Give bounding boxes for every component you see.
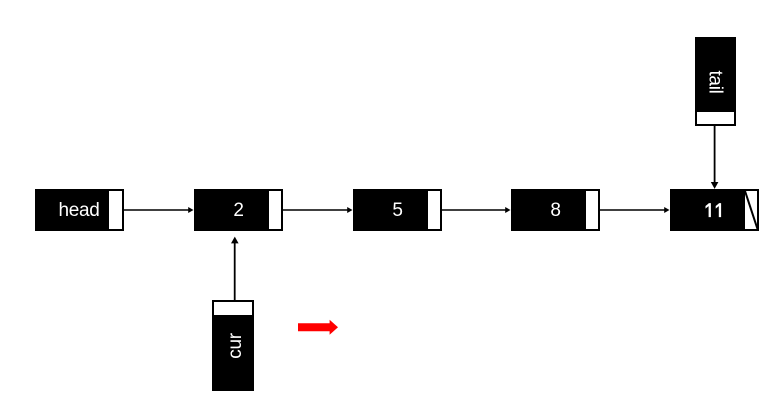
node 2 xyxy=(194,189,283,231)
wire node 5 to node 8 xyxy=(442,207,511,213)
label "tail" xyxy=(697,39,734,124)
pointer slot of node 8 xyxy=(586,191,599,229)
tail pointer box xyxy=(695,37,736,126)
wire cur up to node 2 xyxy=(231,237,239,301)
node head xyxy=(35,189,124,231)
wire tail down to node 11 xyxy=(711,125,719,189)
value label "5" xyxy=(355,192,440,230)
label "head" xyxy=(37,192,122,230)
value label "11" xyxy=(672,191,757,229)
pointer slot of node 11 with null diagonal xyxy=(745,191,758,229)
value label "8" xyxy=(513,192,598,230)
red block arrow xyxy=(298,320,338,335)
wire head to node 2 xyxy=(124,207,194,213)
cur pointer box xyxy=(212,300,254,391)
value label "2" xyxy=(196,192,281,230)
node 11 (null next pointer) xyxy=(670,189,759,231)
pointer slot of node 5 xyxy=(428,191,441,229)
pointer slot of cur xyxy=(214,302,252,315)
wire node 2 to node 5 xyxy=(283,207,353,213)
wire node 8 to node 11 xyxy=(600,207,670,213)
pointer slot of node 2 xyxy=(269,191,282,229)
node 8 xyxy=(511,189,600,231)
pointer slot of head xyxy=(109,191,122,229)
node 5 xyxy=(353,189,442,231)
label "cur" xyxy=(214,302,252,389)
pointer slot of tail xyxy=(697,112,734,125)
